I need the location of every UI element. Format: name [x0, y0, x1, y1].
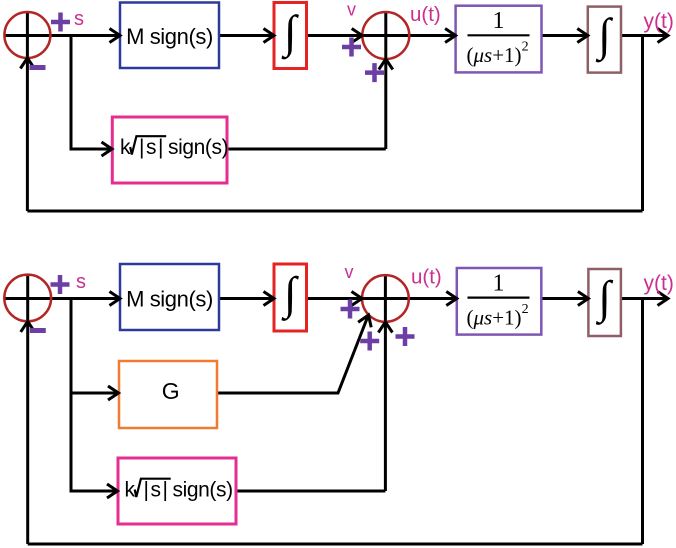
svg-text:G: G: [162, 378, 180, 404]
svg-text:y(t): y(t): [644, 272, 674, 295]
svg-text:sign(s): sign(s): [168, 136, 228, 159]
svg-text:u(t): u(t): [411, 266, 442, 289]
svg-text:v: v: [345, 262, 354, 282]
svg-text:(μs+1)2: (μs+1)2: [467, 40, 529, 68]
svg-text:s: s: [74, 8, 84, 30]
svg-text:u(t): u(t): [410, 3, 441, 26]
svg-text:sign(s): sign(s): [173, 479, 233, 502]
svg-text:y(t): y(t): [644, 10, 674, 33]
svg-text:1: 1: [493, 8, 505, 34]
svg-text:∫: ∫: [281, 6, 299, 60]
svg-text:(μs+1)2: (μs+1)2: [467, 302, 529, 330]
svg-text:v: v: [347, 0, 356, 20]
svg-text:M sign(s): M sign(s): [126, 24, 213, 49]
svg-text:s: s: [76, 271, 86, 293]
svg-text:1: 1: [493, 270, 505, 296]
svg-text:|s|: |s|: [144, 479, 170, 502]
svg-text:∫: ∫: [281, 268, 299, 322]
svg-text:∫: ∫: [595, 272, 613, 326]
svg-text:∫: ∫: [595, 9, 613, 63]
svg-text:M sign(s): M sign(s): [126, 287, 213, 312]
svg-text:|s|: |s|: [139, 136, 165, 159]
